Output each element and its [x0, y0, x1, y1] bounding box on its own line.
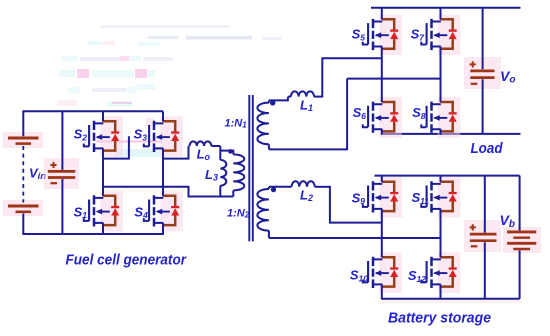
wire bottom rail load bridge	[382, 133, 521, 135]
wire left-leg midpoint S9-S10	[381, 209, 383, 258]
node N2 dot	[271, 187, 276, 192]
wire S6 source lead	[381, 129, 383, 135]
wire S7 drain lead	[440, 8, 442, 20]
battery Vin dashed link	[22, 146, 24, 203]
svg-text:Load: Load	[471, 141, 504, 157]
transistor S12	[438, 252, 461, 293]
wire battery-side capacitor rail	[484, 176, 486, 299]
transistor S1	[100, 191, 123, 232]
input capacitor + sign	[50, 162, 56, 168]
wire primary bottom	[188, 196, 234, 198]
transistor S5	[379, 15, 402, 56]
wire S4 source lead	[162, 223, 164, 235]
wire right-leg midpoint S3-S4	[162, 148, 164, 195]
wire S2 drain lead	[102, 111, 104, 121]
battery-side capacitor plates	[470, 233, 497, 236]
faint smear top edge	[100, 25, 230, 28]
output capacitor Vo glow	[464, 57, 501, 89]
fuel-cell battery glow	[3, 132, 43, 148]
wire bottom rail fuel-cell bridge	[22, 233, 163, 235]
wire left-leg midpoint S2-S1	[102, 148, 104, 195]
input capacitor plates	[48, 170, 75, 173]
output capacitor plates	[470, 70, 494, 73]
wire primary top branch	[220, 150, 233, 152]
inductor Lo	[189, 146, 190, 160]
wire battery Vb leads	[519, 176, 521, 299]
transistor S10	[379, 252, 402, 293]
wire bottom rail battery bridge	[382, 298, 520, 300]
faint smear under battery bridge rail	[382, 301, 522, 304]
transistor S7	[438, 15, 461, 56]
transformer secondary winding N1	[269, 100, 288, 102]
ghost artifact row 1	[88, 41, 102, 45]
transistor S4	[160, 191, 183, 232]
wire battery bottom lead	[22, 214, 24, 235]
node N1 dot	[270, 100, 275, 105]
input capacitor glow	[44, 158, 79, 189]
wire top rail fuel-cell bridge	[22, 110, 163, 112]
ghost artifact row 5	[57, 100, 77, 106]
wire S1 source lead	[102, 223, 104, 235]
smudges near S3	[96, 141, 162, 143]
transformer core	[248, 95, 250, 241]
wire N2 bottom return	[269, 237, 442, 239]
battery Vb plates	[507, 230, 536, 233]
inductor L1	[288, 97, 291, 102]
wire top rail load bridge	[371, 7, 521, 9]
wire S12 source lead	[440, 284, 442, 299]
wire left-leg return to primary bottom	[103, 186, 189, 197]
wire stub node from left leg	[103, 136, 129, 159]
wire right-leg midpoint S11-S12	[440, 209, 442, 258]
battery Vin cell 1	[8, 137, 39, 140]
wire input capacitor rail	[61, 111, 63, 234]
battery-side capacitor + sign	[470, 224, 476, 230]
wire output capacitor rail	[482, 8, 484, 134]
wire S3 drain lead	[162, 111, 164, 121]
node primary dot	[228, 149, 233, 154]
svg-text:Fuel cell generator: Fuel cell generator	[66, 253, 188, 269]
output capacitor - sign	[471, 83, 478, 85]
transformer secondary winding N2	[269, 187, 292, 189]
wire S5 drain lead	[381, 8, 383, 20]
ghost artifact row 3	[59, 70, 75, 77]
wire left-leg midpoint S5-S6	[381, 47, 383, 103]
wire S10 source lead	[381, 284, 383, 299]
wire right-leg midpoint S7-S8	[440, 47, 442, 103]
wire L2 to battery bridge	[329, 186, 381, 223]
output capacitor + sign	[470, 61, 476, 67]
wire right-leg to Lo	[163, 158, 189, 160]
transistor S6	[379, 97, 402, 138]
ghost artifact row 2	[62, 56, 78, 61]
wire S8 source lead	[440, 129, 442, 135]
transformer primary winding	[232, 150, 234, 155]
wire S11 drain lead	[440, 176, 442, 182]
wire top rail battery bridge	[375, 175, 520, 177]
wire L1 to load bridge	[321, 58, 381, 97]
inductor L3	[219, 146, 221, 160]
inductor L2	[292, 181, 315, 187]
wire battery top lead	[22, 111, 24, 136]
transistor S11	[438, 177, 461, 218]
battery-side capacitor - sign	[471, 245, 478, 247]
ghost artifact row 4	[68, 87, 80, 93]
wire N1 bottom return	[269, 79, 441, 151]
transistor S2	[100, 116, 123, 156]
battery Vb glow	[503, 227, 541, 253]
input capacitor - sign	[50, 182, 57, 184]
battery Vin cell 2	[8, 205, 39, 208]
wire S9 drain lead	[381, 176, 383, 182]
battery-side capacitor glow	[464, 220, 501, 252]
transistor S9	[379, 177, 402, 218]
transistor S8	[438, 97, 461, 138]
transistor S3	[160, 116, 183, 156]
svg-text:Battery storage: Battery storage	[388, 311, 491, 327]
